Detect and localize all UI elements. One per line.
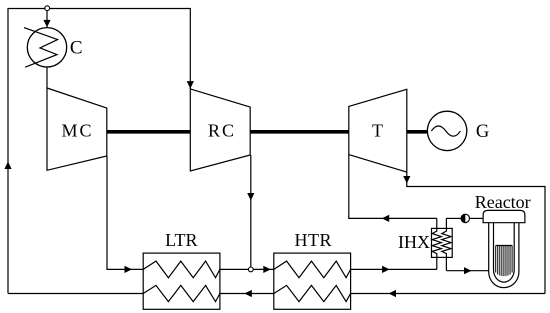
svg-text:C: C <box>70 38 83 59</box>
svg-text:HTR: HTR <box>295 230 333 250</box>
svg-text:IHX: IHX <box>398 232 430 252</box>
svg-text:T: T <box>372 121 383 141</box>
svg-text:LTR: LTR <box>165 230 197 250</box>
svg-text:Reactor: Reactor <box>475 192 531 212</box>
svg-text:MC: MC <box>61 121 93 141</box>
svg-text:RC: RC <box>208 121 236 141</box>
svg-text:G: G <box>476 122 489 142</box>
